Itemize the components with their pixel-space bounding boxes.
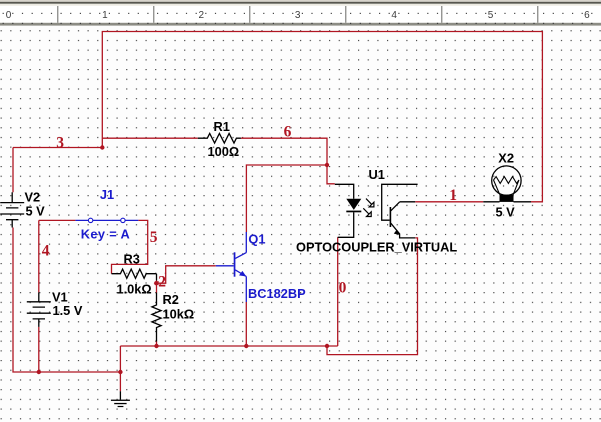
svg-text:Key = A: Key = A [81,226,130,241]
svg-text:6: 6 [284,124,292,141]
svg-text:100Ω: 100Ω [208,144,240,159]
svg-text:2: 2 [158,274,166,291]
svg-text:Q1: Q1 [248,232,265,247]
svg-text:3: 3 [56,134,64,151]
svg-text:1.0kΩ: 1.0kΩ [117,281,152,296]
svg-text:5: 5 [150,229,158,246]
svg-text:5 V: 5 V [496,205,516,220]
svg-text:BC182BP: BC182BP [248,286,306,301]
svg-text:0: 0 [6,10,12,21]
svg-text:5 V: 5 V [26,203,46,218]
svg-text:1.5 V: 1.5 V [53,303,83,318]
svg-text:R2: R2 [163,292,179,307]
svg-text:2: 2 [199,10,205,21]
svg-text:X2: X2 [498,151,514,166]
svg-text:1: 1 [102,10,108,21]
svg-text:5: 5 [488,10,494,21]
svg-text:10kΩ: 10kΩ [163,307,195,322]
svg-text:U1: U1 [369,167,385,182]
svg-text:1: 1 [449,187,457,204]
svg-text:J1: J1 [100,187,114,202]
svg-text:V2: V2 [25,189,41,204]
svg-text:4: 4 [391,10,397,21]
svg-text:0: 0 [339,279,347,296]
svg-text:4: 4 [42,243,50,260]
svg-text:3: 3 [295,10,301,21]
svg-text:R1: R1 [214,119,230,134]
svg-text:R3: R3 [124,252,140,267]
svg-text:6: 6 [584,10,590,21]
svg-text:OPTOCOUPLER_VIRTUAL: OPTOCOUPLER_VIRTUAL [296,239,457,254]
